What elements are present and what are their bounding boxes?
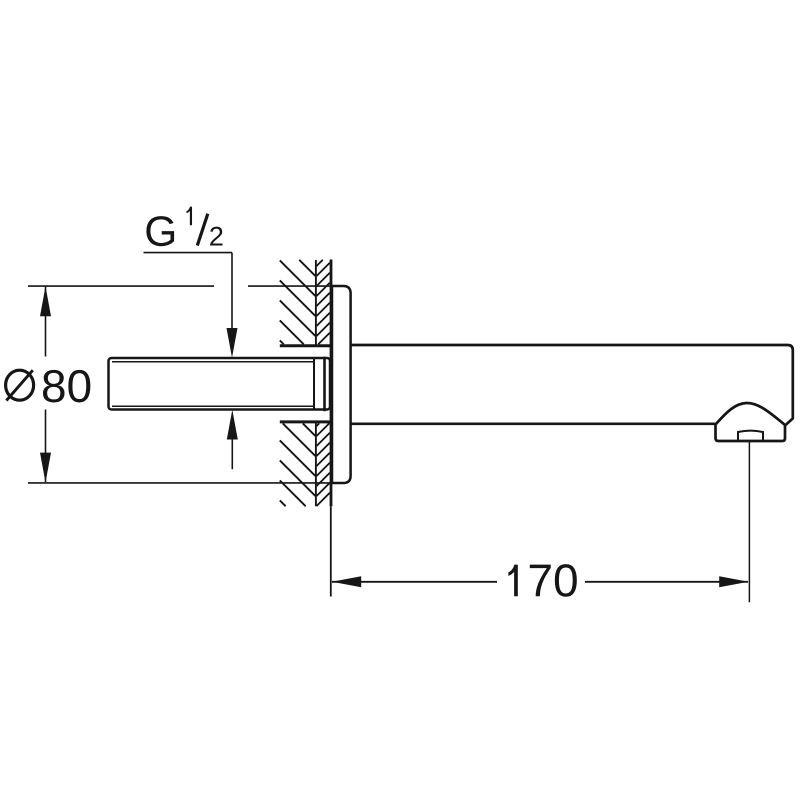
diameter symbol slash <box>6 370 32 400</box>
fraction slash <box>197 214 208 246</box>
threaded pipe G1/2 outer outline <box>109 358 331 410</box>
text 1 superscript <box>186 207 192 226</box>
text G <box>146 216 174 246</box>
dimension 170 right extension line <box>748 442 750 603</box>
wall hatching lower block left band <box>280 423 316 506</box>
wall face line <box>330 260 333 507</box>
G1/2 leader horizontal <box>144 252 233 254</box>
wall flange (escutcheon) <box>332 286 351 483</box>
G1/2 arrow up to pipe bottom <box>227 410 238 440</box>
dimension 170 arrow left <box>332 576 361 587</box>
wall hatching lower block right band <box>317 423 330 506</box>
wall upper block bottom edge <box>280 344 333 347</box>
aerator <box>738 431 763 441</box>
dimension Ø80 line lower segment <box>45 410 47 483</box>
G1/2 arrow down to pipe top <box>227 328 238 358</box>
dimension Ø80 arrow down <box>40 453 51 483</box>
pipe collar line <box>323 357 326 411</box>
dimension 170 line left segment <box>332 581 497 583</box>
text 80 <box>43 370 90 403</box>
G1/2 arrow tail <box>231 440 233 470</box>
wall hatching upper block left band <box>280 260 316 345</box>
thread crest line top <box>112 361 314 363</box>
wall lower block top edge <box>280 420 333 423</box>
wall hatching upper block right band <box>317 260 330 345</box>
wall layer boundary line upper <box>315 260 317 346</box>
dimension 170 line right segment <box>585 581 748 583</box>
diameter symbol ellipse <box>6 370 34 400</box>
wall layer boundary line lower <box>315 422 317 506</box>
wall face line lower extension (170 dim left extension) <box>330 506 332 596</box>
text 2 subscript <box>210 227 222 246</box>
thread crest line bottom <box>112 405 314 407</box>
spout body outline <box>351 345 793 441</box>
dimension Ø80 arrow up <box>40 286 51 316</box>
dimension Ø80 bottom extension line <box>28 482 332 484</box>
text 170 <box>508 564 576 597</box>
dimension 170 arrow right <box>719 576 748 587</box>
G1/2 leader vertical <box>231 253 233 330</box>
dimension Ø80 top extension line <box>28 285 332 287</box>
thread end line <box>313 358 315 410</box>
dimension Ø80 line upper segment <box>45 287 47 357</box>
spout underside dome <box>716 403 785 425</box>
